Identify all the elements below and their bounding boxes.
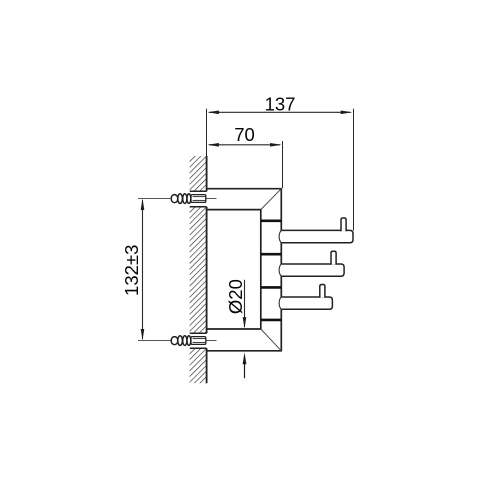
handle 1 lever bbox=[279, 218, 353, 243]
bottom screw centerline bbox=[138, 340, 217, 342]
bottom wall anchor bbox=[191, 337, 206, 345]
cartridge divider 4 bbox=[261, 319, 282, 322]
handle 2 lever bbox=[279, 251, 344, 276]
wall face line bbox=[206, 156, 208, 383]
top wall anchor bbox=[191, 195, 206, 203]
svg-text:70: 70 bbox=[234, 124, 255, 145]
cartridge divider 3 bbox=[261, 286, 282, 289]
top chamfer edge bbox=[261, 189, 282, 210]
wall hatch lower segment bbox=[190, 348, 207, 383]
handle 3 lever bbox=[279, 285, 332, 310]
dimension 70 line bbox=[207, 143, 281, 147]
dimension 70 right extension line bbox=[282, 141, 284, 188]
bottom screw head and thread bulges bbox=[171, 336, 191, 346]
inlet direction arrow bbox=[243, 352, 247, 378]
wall hatch middle segment bbox=[190, 207, 207, 334]
top screw centerline bbox=[138, 198, 217, 200]
wall hatch upper segment bbox=[190, 156, 207, 191]
cartridge divider 1 bbox=[261, 220, 282, 223]
dimension 132±3 line bbox=[141, 199, 145, 341]
dimension Ø20 leader line bbox=[243, 280, 247, 329]
body outline bbox=[207, 189, 282, 351]
svg-text:132±3: 132±3 bbox=[121, 245, 142, 296]
svg-text:Ø20: Ø20 bbox=[225, 279, 246, 314]
bottom drill hole edges bbox=[190, 333, 207, 348]
dimension 137 line bbox=[207, 111, 352, 115]
cartridge divider 2 bbox=[261, 253, 282, 256]
bottom chamfer edge bbox=[261, 329, 282, 351]
top screw head and thread bulges bbox=[171, 194, 191, 204]
top drill hole edges bbox=[190, 191, 207, 206]
dimension 137 left extension line bbox=[206, 109, 208, 157]
svg-text:137: 137 bbox=[265, 94, 296, 115]
dimension 137 right extension line bbox=[353, 109, 355, 231]
